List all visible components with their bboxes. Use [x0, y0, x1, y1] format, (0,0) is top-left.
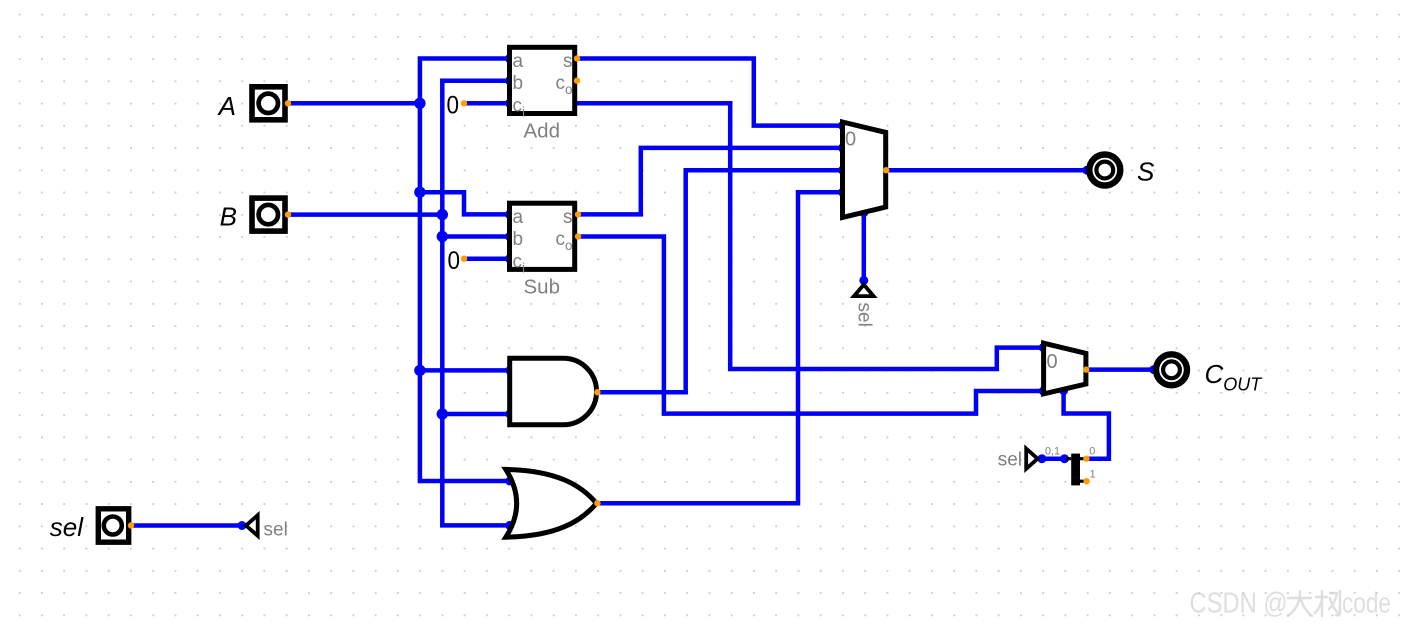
wire trunk1 vertical (A net) — [420, 59, 510, 482]
wire endpoint dot OR.in1 — [505, 477, 514, 486]
output C_OUT — [1156, 354, 1263, 394]
wire endpoint dot U1.in0 — [838, 121, 847, 130]
svg-text:b: b — [513, 73, 524, 94]
wire endpoint dot Sub.a — [505, 210, 514, 219]
OR gate U6 — [506, 469, 597, 537]
svg-text:s: s — [563, 51, 573, 72]
svg-text:sel: sel — [998, 449, 1022, 470]
svg-text:Add: Add — [524, 120, 560, 143]
wire endpoint dot U2.in1 — [1039, 387, 1048, 396]
wire endpoint dot S.pin — [1082, 166, 1091, 175]
wire endpoint dot AND.in1 — [505, 366, 514, 375]
multiplexer U2 — [1044, 343, 1086, 394]
wire endpoint dot U2.sel-top — [1059, 386, 1068, 395]
svg-text:S: S — [1137, 156, 1155, 186]
wire trunk2 to AND in2 — [442, 412, 508, 417]
tunnel T2 sel (up-pointing, rotated label) — [854, 285, 875, 327]
svg-text:0: 0 — [448, 247, 461, 275]
junction trunk2/B — [437, 209, 448, 220]
svg-text:0: 0 — [1089, 446, 1095, 458]
svg-text:Sub: Sub — [524, 275, 560, 298]
wire endpoint dot Add.b — [505, 76, 514, 85]
svg-text:A: A — [217, 91, 236, 121]
wire const0 to Sub ci — [464, 256, 510, 261]
splitter SP1 (0,1 -> 0 / 1) — [1045, 446, 1096, 486]
pin OR out pin — [594, 500, 600, 506]
svg-text:0: 0 — [1047, 351, 1058, 373]
pin input B pin — [285, 211, 291, 217]
pin Add s pin — [574, 55, 580, 61]
wire endpoint dot U1.in2 — [838, 166, 847, 175]
wire sel tunnel to splitter in — [1042, 456, 1067, 461]
wire Add ci row to mux U2 in0 — [577, 103, 1043, 369]
pin splitter out1 pin — [1083, 478, 1089, 484]
wire endpoint dot U1.in3 — [838, 188, 847, 197]
wire endpoint dot splitter.in-b — [1060, 454, 1069, 463]
wire endpoint dot splitter.in-a — [1037, 454, 1046, 463]
pin const0-Sub pin — [461, 256, 467, 262]
input sel — [50, 509, 129, 542]
wire Add s to mux U1 in0 — [577, 59, 842, 126]
wire trunk2 vertical (B net) — [442, 81, 509, 526]
wire AND out to mux U1 in2 — [597, 170, 842, 392]
wire const0 to Add ci — [464, 101, 510, 106]
svg-text:0: 0 — [845, 129, 856, 151]
wire endpoint dot Sub.b — [505, 232, 514, 241]
wire endpoint dot U2.in0 — [1039, 343, 1048, 352]
junction trunk1/AND-in1 — [414, 365, 425, 376]
adder U4 "Sub" — [510, 203, 575, 298]
pin AND out pin — [594, 389, 600, 395]
junction trunk2/AND-in2 — [437, 408, 448, 419]
svg-text:sel: sel — [264, 520, 288, 541]
pin splitter out0 pin — [1083, 456, 1089, 462]
wire endpoint dot AND.in2 — [505, 410, 514, 419]
svg-text:a: a — [513, 207, 524, 228]
pin Sub co pin — [575, 233, 581, 239]
input B — [220, 198, 285, 231]
svg-text:sel: sel — [50, 512, 84, 542]
input A — [217, 87, 285, 121]
adder U3 "Add" — [510, 47, 575, 142]
svg-text:B: B — [220, 202, 237, 232]
wire endpoint dot Sub.ci — [505, 254, 514, 263]
wire OR out to mux U1 in3 — [597, 192, 842, 503]
wire endpoint dot Add.ci — [505, 99, 514, 108]
watermark CSDN @大树code — [1190, 588, 1392, 620]
svg-text:a: a — [513, 51, 524, 72]
wire trunk1 to Sub a — [420, 192, 508, 214]
pin const0-Add pin — [461, 100, 467, 106]
svg-text:1: 1 — [1090, 468, 1096, 480]
wire endpoint dot Add.a — [505, 54, 514, 63]
pin Add co pin — [574, 78, 580, 84]
wire endpoint dot U1.in1 — [838, 143, 847, 152]
junction trunk1/A — [414, 98, 425, 109]
wire trunk1 to AND in1 — [420, 368, 508, 373]
wire endpoint dot Cout.pin — [1149, 365, 1158, 374]
junction trunk1/Sub-a — [414, 187, 425, 198]
wire Sub s to mux U1 in1 — [578, 148, 842, 215]
wire mux U2 sel to splitter — [1064, 391, 1109, 459]
tunnel T3 sel (right-pointing) — [998, 449, 1038, 471]
wire endpoint dot U1.sel-top — [859, 208, 868, 217]
wire Sub co to mux U2 in1 — [578, 237, 1043, 414]
pin input sel pin — [128, 522, 134, 528]
wire trunk2 to Sub b — [442, 234, 508, 239]
AND gate U5 — [510, 358, 597, 425]
wire A to trunk1 — [288, 101, 420, 106]
pin Sub s pin — [575, 211, 581, 217]
wire endpoint dot U1.sel-bot — [859, 276, 868, 285]
wire sel input to tunnel — [131, 523, 242, 528]
wire mux U2 out to Cout — [1086, 367, 1154, 372]
tunnel T1 sel (left-pointing) — [246, 515, 288, 540]
svg-text:s: s — [563, 207, 573, 228]
wire B to trunk2 — [288, 212, 442, 217]
svg-text:0: 0 — [447, 92, 460, 120]
junction trunk2/Sub-b — [437, 231, 448, 242]
wire endpoint dot OR.in2 — [505, 521, 514, 530]
output S — [1089, 155, 1155, 187]
svg-text:sel: sel — [854, 303, 875, 327]
wire mux U1 sel — [862, 213, 867, 281]
svg-text:b: b — [513, 229, 524, 250]
pin mux U1 out pin — [883, 167, 889, 173]
pin input A pin — [285, 100, 291, 106]
wire mux U1 out to S — [886, 168, 1087, 173]
svg-text:0,1: 0,1 — [1045, 446, 1060, 458]
pin mux U2 out pin — [1083, 366, 1089, 372]
wire endpoint dot sel-tunnel-end — [238, 521, 247, 530]
multiplexer U1 — [843, 122, 886, 217]
